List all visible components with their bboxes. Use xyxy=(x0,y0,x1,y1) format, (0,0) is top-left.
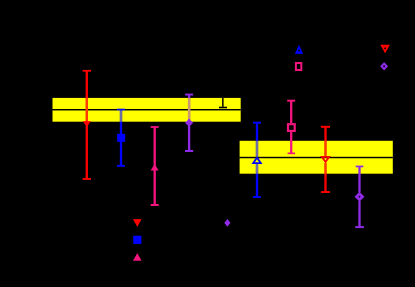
purple L4 filled diamond marker xyxy=(185,119,193,127)
red R7 bottom cap xyxy=(321,191,330,193)
pink R6 top cap xyxy=(287,100,295,102)
right yellow band xyxy=(240,141,393,174)
purple L4 bottom cap xyxy=(185,150,193,152)
left yellow band xyxy=(53,98,241,122)
blue R5 over-band blend upper xyxy=(256,141,258,157)
blue errorbar R5 line upper xyxy=(256,123,258,157)
purple errorbar R8 line upper xyxy=(358,166,360,192)
red R7 open triangle-down marker xyxy=(322,157,329,162)
blue errorbar L2 line xyxy=(120,110,122,166)
legend purple diamond hole xyxy=(383,65,385,67)
legend open blue triangle-up xyxy=(295,45,303,54)
legend open red triangle-down xyxy=(380,45,390,54)
purple L4 over-band blend xyxy=(188,98,190,119)
blue L2 filled square marker xyxy=(117,134,125,142)
pink errorbar R6 line upper xyxy=(290,101,292,123)
purple R8 open diamond marker xyxy=(357,194,363,200)
legend filled red triangle-down xyxy=(133,219,142,227)
legend filled blue square xyxy=(133,236,141,244)
pink R6 open square marker xyxy=(288,124,295,131)
red R7 over-band blend upper xyxy=(324,141,326,156)
red L1 top cap xyxy=(83,70,91,72)
legend blue triangle hole xyxy=(298,50,300,52)
red L1 bottom cap xyxy=(83,178,91,180)
blue errorbar R5 line lower xyxy=(256,164,258,197)
blue L2 bottom cap xyxy=(117,165,125,167)
blue L2 top cap xyxy=(117,109,125,111)
legend filled pink triangle-up xyxy=(133,253,142,261)
red L1 filled triangle-down marker xyxy=(83,121,91,127)
red R7 top cap xyxy=(321,126,330,128)
pink L3 bottom cap xyxy=(151,204,159,206)
black tick cap xyxy=(219,107,227,109)
black tick on left band line xyxy=(222,98,224,107)
blue R5 open triangle-up marker xyxy=(253,158,261,164)
purple L4 top cap xyxy=(185,94,193,96)
red R7 over-band blend lower xyxy=(324,163,326,174)
right band center line xyxy=(240,157,393,158)
purple R8 bottom cap xyxy=(355,226,364,228)
red errorbar R7 line lower xyxy=(324,163,326,192)
red errorbar R7 line upper xyxy=(324,127,326,156)
blue R5 over-band blend lower xyxy=(256,164,258,174)
purple R8 top cap xyxy=(356,166,364,168)
left band center line xyxy=(53,109,241,110)
pink errorbar R6 line lower xyxy=(290,132,292,153)
blue L2 over-band blend xyxy=(120,110,122,121)
blue R5 bottom cap xyxy=(253,196,261,198)
pink errorbar L3 line xyxy=(154,127,156,205)
legend open purple diamond xyxy=(380,62,388,70)
red L1 over-band blend xyxy=(86,98,88,122)
purple errorbar L4 line xyxy=(188,95,190,152)
pink L3 filled triangle-up marker xyxy=(151,164,159,171)
pink R6 bottom cap xyxy=(288,153,295,155)
blue R5 top cap xyxy=(253,122,261,124)
legend red triangle hole xyxy=(384,47,386,49)
red errorbar L1 line xyxy=(86,70,88,179)
pink L3 top cap xyxy=(151,126,159,128)
legend open pink square xyxy=(296,63,301,70)
purple errorbar R8 line lower xyxy=(358,201,360,227)
legend filled purple diamond xyxy=(224,219,230,227)
